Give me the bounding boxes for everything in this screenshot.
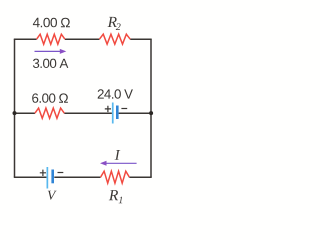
wire middle segment center [64, 112, 112, 114]
label 3.00 A value [33, 59, 68, 68]
wire top segment middle [65, 38, 100, 40]
wire bottom segment center [54, 176, 100, 178]
label 4.00 ohm value [33, 18, 70, 28]
resistor 6.00 ohm [35, 108, 64, 118]
resistor R1 [101, 171, 130, 183]
wire top segment right [130, 38, 152, 40]
battery V [40, 167, 64, 189]
label R1 [109, 190, 122, 203]
wire top segment left [14, 38, 37, 40]
wire middle segment right [119, 112, 151, 114]
resistor 4.00 ohm [37, 34, 65, 44]
label V [48, 191, 57, 200]
resistor R2 [99, 34, 130, 44]
wire bottom segment right [129, 176, 151, 178]
junction node left [13, 111, 17, 115]
wire middle segment left [15, 112, 35, 114]
label 6.00 ohm value [32, 93, 68, 102]
wire bottom segment left [14, 176, 47, 178]
current arrow I [100, 161, 137, 166]
label I [115, 150, 121, 160]
battery 24.0 V [105, 103, 127, 124]
wire right vertical [150, 39, 152, 177]
label R2 [108, 17, 121, 30]
current arrow 3.00 A [35, 49, 67, 54]
wire left vertical [14, 39, 16, 177]
label 24.0 V value [98, 89, 133, 98]
junction node right [149, 111, 153, 115]
